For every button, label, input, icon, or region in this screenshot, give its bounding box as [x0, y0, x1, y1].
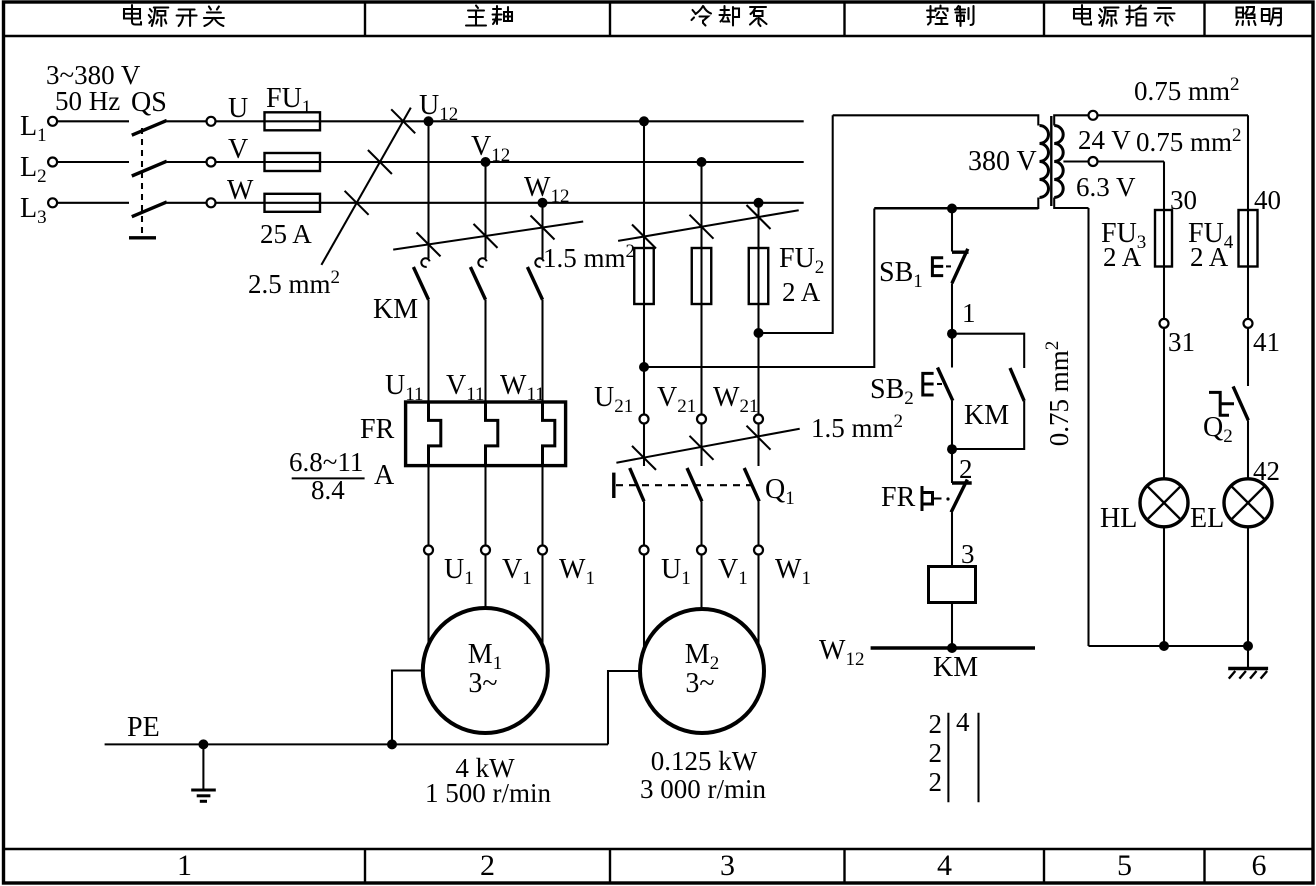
svg-text:380 V: 380 V	[968, 146, 1037, 177]
transformer secondary bottom lead	[1054, 198, 1088, 209]
wire 6.3V to indicator branch	[1098, 160, 1165, 162]
svg-text:3: 3	[720, 849, 735, 882]
svg-text:0.75 mm2: 0.75 mm2	[1136, 125, 1242, 157]
svg-text:Q1: Q1	[765, 474, 795, 509]
wire U21 down	[643, 424, 645, 467]
wire 6.3V branch down to FU3	[1163, 162, 1165, 211]
terminal M2 V1	[697, 546, 706, 555]
wire 24V to lighting branch	[1098, 114, 1249, 116]
terminal W21	[754, 415, 763, 424]
motor M1	[423, 608, 548, 733]
svg-text:1.5 mm2: 1.5 mm2	[543, 241, 635, 273]
FR heater element V	[486, 402, 498, 465]
PE earth electrode	[198, 739, 208, 749]
fuse FU2 phase V	[692, 248, 712, 304]
svg-text:PE: PE	[127, 712, 160, 743]
fuse FU2 phase W	[749, 248, 769, 304]
wire U12 down	[427, 121, 429, 258]
wire Q1 to M2 terminal U1	[643, 501, 645, 545]
svg-text:25 A: 25 A	[260, 219, 312, 249]
wire W12 down	[541, 203, 543, 259]
wire SB2 to node 2	[951, 401, 953, 450]
terminal L2	[48, 158, 57, 167]
thermal relay FR contact	[951, 449, 953, 483]
svg-text:W: W	[227, 175, 254, 206]
svg-text:31: 31	[1168, 327, 1195, 357]
header cell label 电源开关	[124, 5, 141, 25]
cable marker 1.5mm2 spindle ticks	[417, 232, 441, 256]
svg-text:SB2: SB2	[870, 374, 914, 409]
svg-text:KM: KM	[933, 652, 978, 683]
FR heater element W	[543, 402, 555, 465]
lamp return bus	[1089, 645, 1249, 647]
svg-text:4: 4	[956, 707, 970, 737]
Q1 handle bar	[612, 473, 615, 498]
svg-text:L2: L2	[20, 152, 47, 187]
node control tap on pump U	[639, 362, 649, 372]
fuse FU4	[1239, 210, 1258, 267]
terminal L1	[48, 117, 57, 126]
svg-text:V1: V1	[718, 554, 748, 589]
rail L3 after FU1	[320, 202, 804, 204]
header cell label 冷却泵	[692, 6, 712, 26]
svg-text:SB1: SB1	[879, 257, 923, 292]
wire W21 down	[757, 424, 759, 467]
footer top rule	[2, 848, 1313, 850]
svg-text:0.75 mm2: 0.75 mm2	[1134, 74, 1240, 106]
svg-text:U12: U12	[419, 90, 458, 125]
terminal W	[207, 198, 216, 207]
svg-text:3~: 3~	[685, 668, 714, 699]
svg-text:U1: U1	[444, 554, 474, 589]
svg-text:U21: U21	[594, 382, 633, 417]
svg-text:U: U	[228, 93, 248, 124]
svg-text:A: A	[374, 460, 395, 491]
wire 24V branch down to FU4	[1247, 115, 1249, 210]
svg-text:QS: QS	[131, 87, 167, 118]
svg-text:V: V	[228, 134, 248, 165]
svg-text:4: 4	[937, 849, 952, 882]
wire pump U tap to control left	[644, 209, 874, 368]
wire QS to U terminal	[167, 120, 207, 122]
wire into M2 U	[643, 555, 645, 650]
terminal M2 U1	[640, 546, 649, 555]
rail L1 after FU1	[320, 120, 804, 122]
wire into M2 V	[700, 555, 702, 610]
svg-text:KM: KM	[373, 294, 418, 325]
svg-text:6.3 V: 6.3 V	[1076, 172, 1136, 202]
wire EL down to return bus	[1247, 527, 1249, 646]
wire FR to node 3	[951, 512, 953, 566]
svg-text:EL: EL	[1190, 503, 1224, 534]
svg-text:FR: FR	[881, 482, 916, 513]
switch Q1 blades	[630, 468, 644, 501]
switch Q2	[1233, 386, 1248, 420]
terminal M1 U1	[424, 546, 433, 555]
terminal M1 V1	[481, 546, 490, 555]
svg-text:L3: L3	[20, 193, 47, 228]
wire L2 to QS	[57, 161, 129, 163]
transformer secondary winding	[1054, 126, 1063, 198]
cable marker 1.5mm2 pump feeder line	[616, 429, 799, 463]
rail L2 after FU1	[320, 161, 804, 163]
node FU2-W to transformer tap	[754, 328, 764, 338]
wire Q1 to M2 terminal W1	[757, 501, 759, 545]
svg-text:0.75 mm2: 0.75 mm2	[1042, 341, 1074, 447]
transformer secondary top lead 24V	[1054, 115, 1088, 125]
cable marker 1.5mm2 pump ticks	[632, 225, 656, 249]
svg-text:41: 41	[1253, 327, 1280, 357]
wire into M2 W	[757, 555, 759, 647]
QS handle bar	[129, 236, 156, 239]
lamp HL	[1140, 479, 1188, 527]
svg-text:V1: V1	[502, 554, 532, 589]
wire FU2-U down to U21	[643, 304, 645, 415]
svg-text:24 V: 24 V	[1078, 125, 1131, 155]
wire U to FU1	[216, 120, 265, 122]
fuse FU2 phase U	[634, 248, 654, 304]
node control feed	[947, 204, 957, 214]
svg-text:W12: W12	[524, 172, 569, 207]
wire control feed 208	[874, 207, 1038, 209]
header cell label 控制	[927, 6, 948, 25]
pushbutton SB1 stop	[952, 250, 969, 253]
wire pump W down to FU2	[757, 203, 759, 248]
svg-text:5: 5	[1117, 849, 1132, 882]
wire L3 to QS	[57, 202, 129, 204]
svg-text:2: 2	[929, 767, 943, 797]
terminal M1 W1	[538, 546, 547, 555]
wire into M1 U	[427, 555, 429, 646]
terminal 31	[1160, 319, 1169, 328]
FR heater element U	[429, 402, 441, 465]
node pump tap V	[697, 157, 707, 167]
terminal L3	[48, 198, 57, 207]
terminal V	[207, 158, 216, 167]
node U12	[424, 116, 434, 126]
svg-text:W1: W1	[775, 554, 811, 589]
terminal U21	[640, 415, 649, 424]
fuse FU1 phase W	[265, 194, 321, 212]
motor M2	[640, 609, 764, 733]
wire QS to V terminal	[167, 161, 207, 163]
svg-text:6: 6	[1252, 849, 1267, 882]
wire 31 down to lamp HL	[1163, 328, 1165, 479]
wire QS to W terminal	[167, 202, 207, 204]
PE bus	[105, 743, 608, 745]
svg-text:W12: W12	[819, 635, 864, 670]
svg-text:50 Hz: 50 Hz	[55, 86, 120, 116]
cable marker 2.5mm2 line	[321, 108, 410, 265]
node V12	[481, 157, 491, 167]
svg-text:2.5 mm2: 2.5 mm2	[248, 267, 340, 299]
wire Q2 to lamp EL	[1247, 420, 1249, 479]
terminal U	[207, 117, 216, 126]
svg-text:3: 3	[961, 539, 975, 569]
wire into M1 W	[541, 555, 543, 646]
terminal 41	[1244, 319, 1253, 328]
svg-text:W21: W21	[713, 382, 758, 417]
wire FR to M1 terminal W1	[541, 465, 543, 546]
svg-text:1 500 r/min: 1 500 r/min	[425, 778, 551, 808]
cable marker 1.5mm2 spindle line	[393, 222, 583, 250]
svg-text:V11: V11	[446, 370, 485, 405]
header cell label 电源指示	[1074, 5, 1091, 25]
wire HL down to return bus	[1163, 527, 1165, 646]
svg-text:8.4: 8.4	[311, 475, 345, 505]
fuse FU1 phase U	[265, 112, 321, 130]
wire W pump to transformer primary	[759, 115, 833, 333]
svg-text:1: 1	[962, 298, 976, 328]
wire Q1 to M2 terminal V1	[700, 501, 702, 545]
svg-text:2: 2	[480, 849, 495, 882]
svg-text:L1: L1	[20, 111, 47, 146]
node W12	[538, 198, 548, 208]
wire FU2-V down to V21	[700, 304, 702, 415]
contactor KM coil	[929, 567, 976, 603]
cable marker 2.5mm2 ticks	[391, 109, 415, 133]
terminal V21	[697, 415, 706, 424]
wire FR to M1 terminal V1	[484, 465, 486, 546]
wire V21 down	[700, 424, 702, 467]
cable marker 1.5mm2 pump line	[618, 210, 799, 241]
wire W to FU1	[216, 202, 265, 204]
node pump tap U	[639, 116, 649, 126]
cable marker 1.5mm2 pump feeder ticks	[632, 446, 656, 470]
svg-text:FR: FR	[360, 414, 395, 445]
Q1 linkage dashed	[616, 484, 757, 486]
terminal 6.3V	[1089, 157, 1098, 166]
wire SB1 to node 1	[951, 283, 953, 333]
header cell label 主轴	[466, 6, 486, 26]
transformer T primary bottom lead	[874, 198, 1038, 209]
svg-text:KM: KM	[964, 400, 1009, 431]
transformer T primary winding	[1040, 126, 1049, 198]
header bottom rule	[2, 35, 1313, 37]
terminal 24V	[1089, 111, 1098, 120]
svg-text:0.125 kW: 0.125 kW	[651, 746, 758, 776]
contactor KM auxiliary contact	[952, 334, 1024, 368]
transformer mid tap 6.3V	[1063, 160, 1088, 162]
transformer T primary lead	[833, 115, 1039, 125]
wire pump V down to FU2	[700, 162, 702, 248]
wire FR to M1 terminal U1	[427, 465, 429, 546]
transformer core	[1050, 116, 1052, 206]
node pump tap W	[754, 198, 764, 208]
svg-text:30: 30	[1170, 185, 1197, 215]
svg-text:V12: V12	[471, 131, 510, 166]
node 1	[947, 329, 957, 339]
svg-text:2 A: 2 A	[782, 277, 821, 307]
svg-text:HL: HL	[1100, 503, 1137, 534]
M1 earth wire	[392, 671, 423, 745]
wire FU4 to terminal 41	[1247, 267, 1249, 319]
svg-text:Q2: Q2	[1203, 412, 1233, 447]
wire V to FU1	[216, 161, 265, 163]
svg-text:2 A: 2 A	[1103, 242, 1142, 272]
contactor KM main contact U	[421, 258, 429, 267]
svg-text:FU2: FU2	[779, 243, 824, 278]
svg-text:W11: W11	[500, 370, 545, 405]
wire L1 to QS	[57, 120, 129, 122]
svg-text:2: 2	[929, 709, 943, 739]
svg-text:3 000 r/min: 3 000 r/min	[640, 774, 766, 804]
wire FU2-W down to W21	[757, 304, 759, 415]
contactor KM main contact V	[478, 258, 486, 267]
wire FU3 to terminal 31	[1163, 267, 1165, 319]
svg-text:1: 1	[177, 849, 192, 882]
svg-text:U1: U1	[661, 554, 691, 589]
pushbutton SB2 start	[951, 334, 953, 368]
thermal relay FR box	[406, 402, 566, 466]
svg-text:1.5 mm2: 1.5 mm2	[811, 411, 903, 443]
header/footer column dividers	[364, 2, 366, 36]
svg-text:2 A: 2 A	[1190, 242, 1229, 272]
W12 return bus	[871, 646, 1035, 649]
QS linkage dashed	[141, 128, 143, 234]
contactor KM main contact W	[535, 258, 543, 267]
M2 earth wire	[608, 671, 640, 744]
node 2	[947, 444, 957, 454]
terminal M2 W1	[754, 546, 763, 555]
wire 0.75 return vertical	[1087, 208, 1089, 646]
svg-text:6.8~11: 6.8~11	[289, 447, 363, 477]
header cell label 照明	[1237, 7, 1256, 25]
lamp EL	[1224, 479, 1272, 527]
wire V12 down	[484, 162, 486, 259]
svg-text:W1: W1	[559, 554, 595, 589]
fuse FU1 phase V	[265, 153, 321, 171]
wire into M1 V	[484, 555, 486, 609]
svg-text:V21: V21	[657, 382, 696, 417]
chassis ground below EL	[1247, 646, 1249, 669]
svg-text:3~: 3~	[468, 668, 497, 699]
wire 41 down to switch Q2	[1247, 328, 1249, 386]
fuse FU3	[1155, 210, 1172, 267]
svg-text:2: 2	[929, 738, 943, 768]
wire down to SB1	[951, 209, 953, 252]
wire coil to W12 bus	[951, 603, 953, 649]
wire pump U down to FU2	[643, 121, 645, 248]
svg-text:U11: U11	[385, 370, 424, 405]
